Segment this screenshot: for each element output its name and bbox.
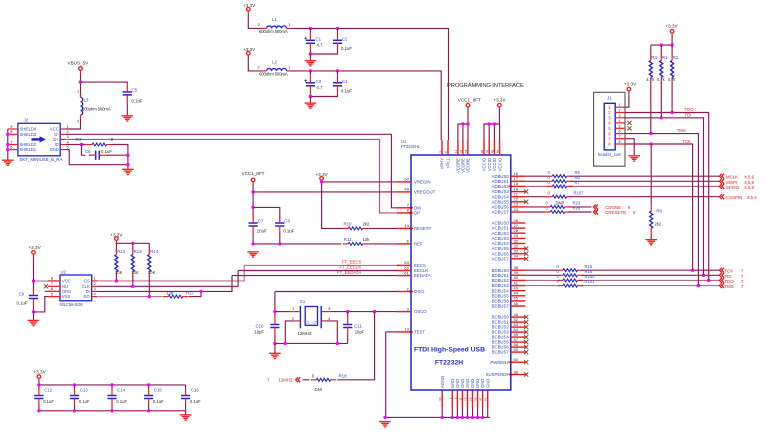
svg-text:0.1uF: 0.1uF	[132, 99, 143, 104]
svg-text:93LC56-SO8: 93LC56-SO8	[60, 302, 84, 307]
svg-text:C14: C14	[117, 388, 125, 393]
svg-text:59: 59	[514, 347, 519, 352]
svg-text:R28: R28	[573, 206, 581, 211]
svg-text:C1: C1	[306, 320, 310, 324]
svg-text:DNI: DNI	[315, 387, 322, 392]
svg-text:C10: C10	[255, 324, 264, 329]
svg-text:GND: GND	[50, 147, 59, 152]
svg-text:R101: R101	[585, 279, 596, 284]
svg-text:3: 3	[619, 114, 621, 118]
svg-text:12MHZ: 12MHZ	[298, 331, 312, 336]
svg-text:PROGRAMMING INTERFACE: PROGRAMMING INTERFACE	[447, 83, 524, 89]
svg-text:11: 11	[458, 397, 462, 400]
svg-text:C16: C16	[191, 388, 199, 393]
svg-text:37: 37	[459, 149, 463, 153]
svg-text:10uF: 10uF	[257, 228, 267, 233]
svg-text:VPLL: VPLL	[446, 157, 451, 168]
svg-text:C1: C1	[316, 36, 322, 41]
svg-text:U2: U2	[61, 269, 67, 274]
svg-text:L3: L3	[84, 98, 89, 103]
svg-text:C2: C2	[313, 320, 317, 324]
svg-text:L1: L1	[272, 17, 277, 22]
svg-text:OSCI: OSCI	[414, 289, 425, 294]
svg-text:0.1uF: 0.1uF	[43, 399, 54, 404]
svg-text:FTDI High-Speed USB: FTDI High-Speed USB	[414, 347, 485, 354]
svg-text:EEDATA: EEDATA	[414, 273, 431, 278]
svg-text:+3.3V: +3.3V	[29, 245, 42, 250]
svg-text:36: 36	[514, 369, 519, 374]
svg-text:VCC1_8FT: VCC1_8FT	[458, 97, 481, 102]
svg-text:REF: REF	[414, 242, 423, 247]
svg-text:C6: C6	[85, 149, 91, 154]
svg-text:18pF: 18pF	[254, 329, 264, 334]
svg-text:OSCO: OSCO	[414, 309, 427, 314]
svg-text:25: 25	[469, 397, 473, 401]
svg-text:4.7: 4.7	[317, 85, 324, 90]
svg-text:R1: R1	[662, 55, 668, 60]
svg-text:20: 20	[480, 149, 484, 153]
svg-text:42: 42	[490, 149, 494, 153]
svg-text:C11: C11	[354, 324, 362, 329]
svg-text:+3.3V: +3.3V	[34, 370, 47, 375]
svg-text:FT_EEDATA: FT_EEDATA	[337, 270, 361, 275]
svg-text:0.1uF: 0.1uF	[116, 399, 127, 404]
svg-text:VREGIN: VREGIN	[414, 180, 430, 185]
svg-text:0.1uF: 0.1uF	[190, 399, 201, 404]
svg-text:ACBUS7: ACBUS7	[492, 256, 510, 261]
svg-text:47: 47	[479, 397, 483, 401]
svg-text:56: 56	[496, 149, 500, 153]
svg-text:18pF: 18pF	[355, 329, 365, 334]
svg-text:10K: 10K	[131, 270, 139, 275]
svg-text:CSSPIN: CSSPIN	[726, 195, 742, 200]
svg-text:C9: C9	[19, 292, 25, 297]
svg-text:600ohm 500mA: 600ohm 500mA	[259, 72, 288, 77]
svg-text:FT2232HL: FT2232HL	[401, 144, 421, 149]
svg-text:PWREN#: PWREN#	[490, 360, 509, 365]
svg-text:DNP: DNP	[556, 201, 565, 206]
svg-text:ADBUS7: ADBUS7	[492, 210, 510, 215]
svg-text:R8: R8	[656, 209, 662, 214]
svg-text:0.1uF: 0.1uF	[17, 300, 28, 305]
svg-text:C12: C12	[44, 388, 52, 393]
svg-text:12: 12	[454, 149, 458, 153]
svg-text:C7: C7	[258, 218, 264, 223]
svg-text:64: 64	[464, 149, 468, 153]
svg-text:24: 24	[514, 207, 519, 212]
svg-text:C4: C4	[342, 79, 348, 84]
svg-text:0.1uF: 0.1uF	[79, 399, 90, 404]
svg-text:AGND: AGND	[440, 376, 445, 388]
svg-text:DO: DO	[84, 294, 90, 299]
svg-text:4,5,6: 4,5,6	[747, 195, 757, 200]
svg-text:60: 60	[514, 357, 519, 362]
svg-text:VCC: VCC	[50, 127, 59, 132]
svg-text:+3.3V: +3.3V	[624, 81, 637, 86]
svg-text:R17: R17	[186, 291, 195, 296]
svg-text:DP: DP	[414, 211, 420, 216]
svg-text:R13: R13	[134, 249, 143, 254]
svg-text:C5: C5	[132, 88, 138, 93]
svg-text:R107: R107	[574, 190, 585, 195]
svg-text:X1: X1	[300, 299, 306, 304]
svg-text:10: 10	[438, 397, 442, 401]
svg-text:VPHY: VPHY	[440, 158, 445, 170]
svg-text:VREGOUT: VREGOUT	[414, 190, 436, 195]
svg-text:VBUS_5V: VBUS_5V	[68, 61, 90, 66]
svg-text:4.7k: 4.7k	[668, 77, 677, 82]
svg-text:13: 13	[404, 327, 409, 332]
svg-text:R11: R11	[344, 237, 352, 242]
svg-text:TMS: TMS	[725, 284, 734, 289]
svg-text:R18: R18	[339, 373, 348, 378]
svg-text:31: 31	[485, 149, 489, 153]
svg-text:C8: C8	[284, 218, 290, 223]
svg-text:R4: R4	[76, 137, 82, 142]
svg-text:600ohm 500mA: 600ohm 500mA	[259, 29, 288, 34]
svg-text:J1: J1	[607, 96, 612, 101]
svg-text:46: 46	[514, 301, 519, 306]
svg-text:TCK: TCK	[682, 139, 691, 144]
svg-text:+3.3V: +3.3V	[666, 24, 679, 29]
svg-text:CRESETB: CRESETB	[605, 210, 626, 215]
svg-text:C3: C3	[316, 79, 322, 84]
svg-text:SUSPEND#: SUSPEND#	[486, 372, 510, 377]
svg-text:FT2232H: FT2232H	[435, 360, 463, 367]
svg-text:TMS: TMS	[677, 128, 686, 133]
svg-text:TEST: TEST	[414, 330, 425, 335]
svg-text:BDBUS7: BDBUS7	[492, 304, 510, 309]
svg-text:SHIELD1: SHIELD1	[20, 147, 37, 152]
svg-text:2k2: 2k2	[655, 222, 662, 227]
svg-text:600ohm 500mA: 600ohm 500mA	[82, 107, 111, 112]
svg-text:TDI: TDI	[685, 113, 692, 118]
svg-text:C15: C15	[154, 388, 162, 393]
svg-text:5: 5	[619, 124, 621, 128]
svg-text:+3.3V: +3.3V	[493, 97, 506, 102]
svg-text:C13: C13	[80, 388, 88, 393]
svg-text:15: 15	[464, 397, 468, 401]
svg-text:14: 14	[404, 223, 409, 228]
svg-text:SHIELD3: SHIELD3	[20, 132, 37, 137]
svg-text:10K: 10K	[115, 270, 123, 275]
svg-text:4,6,6: 4,6,6	[744, 185, 754, 190]
svg-text:R2: R2	[673, 55, 679, 60]
svg-text:2k2: 2k2	[363, 222, 371, 227]
svg-text:J2: J2	[24, 118, 29, 123]
svg-text:1: 1	[619, 103, 621, 107]
svg-text:0.1uF: 0.1uF	[341, 46, 352, 51]
svg-text:0.1uF: 0.1uF	[153, 399, 164, 404]
svg-text:12k: 12k	[363, 237, 371, 242]
svg-text:0.1uF: 0.1uF	[341, 89, 352, 94]
svg-text:SHIELD4: SHIELD4	[20, 127, 37, 132]
svg-text:0.1uF: 0.1uF	[283, 228, 294, 233]
svg-text:VCCIO: VCCIO	[497, 157, 502, 171]
svg-text:4.7: 4.7	[317, 43, 324, 48]
svg-text:4.7k: 4.7k	[646, 77, 655, 82]
svg-text:RESET#: RESET#	[414, 226, 431, 231]
svg-text:L2: L2	[272, 60, 277, 65]
svg-text:R7: R7	[575, 180, 581, 185]
svg-text:10K: 10K	[148, 270, 156, 275]
svg-text:BCBUS7: BCBUS7	[492, 350, 510, 355]
svg-text:C2: C2	[342, 36, 348, 41]
svg-text:61: 61	[404, 270, 409, 275]
svg-text:49: 49	[404, 187, 409, 192]
svg-text:4: 4	[619, 119, 621, 123]
svg-text:VCC: VCC	[62, 279, 71, 284]
svg-text:VCORE: VCORE	[466, 158, 471, 173]
svg-text:VSS: VSS	[62, 294, 70, 299]
svg-text:34: 34	[514, 254, 519, 259]
svg-text:12k: 12k	[167, 291, 175, 296]
svg-text:35: 35	[474, 397, 478, 401]
svg-text:50: 50	[404, 177, 409, 182]
svg-text:header_1x8: header_1x8	[598, 152, 621, 157]
svg-text:R12: R12	[117, 249, 126, 254]
svg-text:SPISO: SPISO	[726, 185, 740, 190]
svg-text:R10: R10	[343, 222, 352, 227]
svg-text:12MHZ: 12MHZ	[279, 378, 293, 383]
svg-text:R14: R14	[150, 249, 159, 254]
svg-text:TDO: TDO	[685, 107, 695, 112]
svg-text:VCC1_8FT: VCC1_8FT	[242, 171, 265, 176]
svg-text:SKT_MINIUSB_B_RA: SKT_MINIUSB_B_RA	[19, 157, 62, 162]
svg-text:2: 2	[619, 109, 621, 113]
svg-text:7: 7	[619, 135, 621, 139]
svg-text:8: 8	[619, 140, 621, 144]
svg-text:GND: GND	[485, 379, 490, 388]
svg-text:4.7k: 4.7k	[657, 77, 666, 82]
svg-text:CS: CS	[84, 279, 90, 284]
svg-text:R3: R3	[651, 55, 657, 60]
svg-text:6: 6	[619, 130, 621, 134]
svg-text:51: 51	[484, 397, 488, 401]
svg-text:0.1uF: 0.1uF	[101, 149, 112, 154]
